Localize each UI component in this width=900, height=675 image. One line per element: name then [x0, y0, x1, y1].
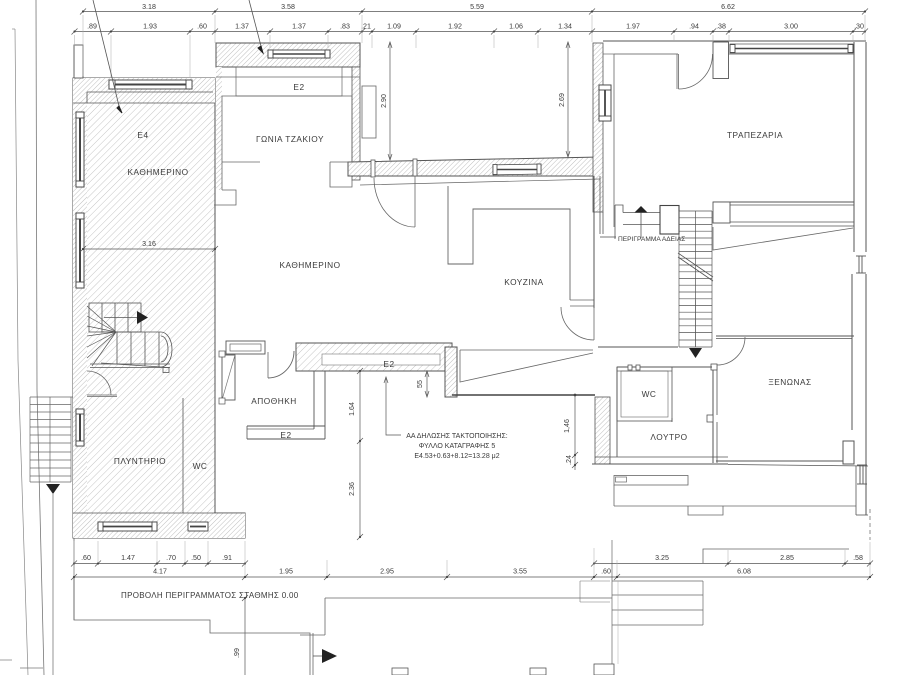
dining west inner line — [613, 54, 615, 227]
bathroom south wall — [595, 456, 728, 458]
door kitchen to hall — [561, 307, 594, 340]
door living south (slant band) — [371, 159, 417, 227]
svg-text:ΚΑΘΗΜΕΡΙΝΟ: ΚΑΘΗΜΕΡΙΝΟ — [279, 260, 340, 270]
note tactopoiisis — [406, 433, 508, 460]
door storeroom arc niche — [268, 351, 294, 378]
left site boundary lines — [15, 29, 28, 675]
extension lines bottom dims — [74, 541, 870, 664]
window E4 north wall — [109, 80, 192, 89]
xenonas east wall — [851, 274, 853, 430]
kitchen east wall — [593, 176, 595, 308]
bottom projected outline middle — [325, 597, 612, 599]
svg-text:ΑΑ ΔΗΛΩΣΗΣ ΤΑΚΤΟΠΟΙΗΣΗΣ:: ΑΑ ΔΗΛΩΣΗΣ ΤΑΚΤΟΠΟΙΗΣΗΣ: — [406, 433, 508, 440]
svg-text:1.64: 1.64 — [348, 402, 356, 416]
wall fireplace room interior — [222, 96, 352, 190]
svg-text:ΦΥΛΛΟ ΚΑΤΑΓΡΑΦΗΣ 5: ΦΥΛΛΟ ΚΑΤΑΓΡΑΦΗΣ 5 — [419, 443, 496, 450]
window E4 west wall middle — [76, 213, 84, 288]
stairs outdoor bottom right — [612, 540, 703, 675]
window dining north long — [730, 44, 853, 53]
svg-text:.89: .89 — [87, 23, 97, 31]
window E4 west wall upper — [76, 112, 84, 187]
svg-text:55: 55 — [416, 380, 424, 388]
window E4 west wall lower — [76, 409, 84, 446]
svg-text:.91: .91 — [222, 554, 232, 562]
wall stub right of living opening — [330, 162, 352, 187]
wall slant band inner line — [360, 179, 600, 185]
svg-text:E2: E2 — [383, 359, 394, 369]
I-column lower right — [857, 465, 867, 484]
svg-text:ΓΩΝΙΑ ΤΖΑΚΙΟΥ: ΓΩΝΙΑ ΤΖΑΚΙΟΥ — [256, 134, 324, 144]
door hall to xenonas — [717, 337, 745, 365]
xenonas SE corner wall — [843, 441, 854, 464]
window dining west wall — [599, 85, 611, 121]
svg-text:3.25: 3.25 — [655, 554, 669, 562]
svg-text:WC: WC — [193, 461, 208, 471]
window storeroom north — [226, 341, 265, 354]
svg-text:3.55: 3.55 — [513, 568, 527, 576]
corridor floor line — [452, 394, 595, 396]
WC room walls — [617, 367, 672, 421]
stairs main treads — [679, 211, 712, 347]
black arrow bottom middle — [322, 649, 337, 663]
svg-text:.60: .60 — [81, 554, 91, 562]
svg-text:.50: .50 — [191, 554, 201, 562]
svg-text:2.69: 2.69 — [558, 93, 566, 107]
svg-text:3.58: 3.58 — [281, 3, 295, 11]
svg-text:3.00: 3.00 — [784, 23, 798, 31]
leader arrow to fireplace window — [249, 0, 261, 46]
svg-text:.60: .60 — [601, 568, 611, 576]
door E4 west wall — [87, 371, 117, 397]
window bottom band wc — [188, 522, 208, 531]
svg-text:ΚΟΥΖΙΝΑ: ΚΟΥΖΙΝΑ — [504, 277, 543, 287]
svg-text:ΠΕΡΙΓΡΑΜΜΑ ΑΔΕΙΑΣ: ΠΕΡΙΓΡΑΜΜΑ ΑΔΕΙΑΣ — [618, 236, 685, 243]
svg-text:Ε4.53+0.63+8.12=13.28 μ2: Ε4.53+0.63+8.12=13.28 μ2 — [414, 453, 499, 460]
dining north wall — [603, 40, 866, 42]
svg-text:.94: .94 — [689, 23, 699, 31]
wall E4 inner top line — [73, 102, 215, 104]
svg-text:1.97: 1.97 — [626, 23, 640, 31]
svg-text:1.47: 1.47 — [121, 554, 135, 562]
svg-text:ΚΑΘΗΜΕΡΙΝΟ: ΚΑΘΗΜΕΡΙΝΟ — [127, 167, 188, 177]
svg-text:.83: .83 — [340, 23, 350, 31]
vertical dimension .99 — [244, 598, 246, 675]
svg-text:1.95: 1.95 — [279, 568, 293, 576]
stairs winder fan — [87, 306, 116, 366]
bottom left small lines — [20, 667, 43, 669]
svg-text:3.16: 3.16 — [142, 240, 156, 248]
svg-text:E2: E2 — [280, 430, 291, 440]
taper ramp right — [713, 227, 853, 250]
wall shaft right of fireplace room — [362, 86, 376, 138]
bottom columns — [392, 668, 408, 675]
vertical dimension 2.90 — [388, 42, 392, 160]
leader arrow to E4 — [93, 0, 119, 106]
stairs main: upper landing — [600, 205, 679, 239]
svg-text:ΞΕΝΩΝΑΣ: ΞΕΝΩΝΑΣ — [768, 377, 811, 387]
window fireplace room north — [268, 50, 330, 58]
veranda step outline right — [703, 549, 849, 563]
window slant band (kitchen) — [493, 164, 541, 175]
hatched slanted south wall band — [348, 157, 600, 176]
xenonas west wall — [712, 364, 714, 463]
svg-text:1,46: 1,46 — [563, 419, 571, 433]
svg-text:1.92: 1.92 — [448, 23, 462, 31]
storeroom walls — [247, 425, 325, 427]
svg-text:WC: WC — [642, 389, 657, 399]
svg-text:6.08: 6.08 — [737, 568, 751, 576]
stairs main down arrow — [695, 300, 697, 347]
dimension bottom row A left — [71, 561, 248, 567]
svg-text:1.37: 1.37 — [292, 23, 306, 31]
svg-text:6.62: 6.62 — [721, 3, 735, 11]
svg-text:.70: .70 — [166, 554, 176, 562]
hatched area E4 block — [73, 78, 245, 538]
wall laundry/wc divider — [182, 398, 184, 513]
hatched area fireplace-corner left sliver — [216, 67, 222, 190]
dimension row 2 top — [75, 31, 866, 33]
column pier below dining north wall — [713, 42, 729, 79]
dimension row 1 top — [80, 9, 868, 15]
svg-text:.21: .21 — [361, 23, 371, 31]
svg-text:E2: E2 — [293, 82, 304, 92]
svg-text:2.36: 2.36 — [348, 482, 356, 496]
dining east wall — [853, 42, 855, 252]
svg-text:E4: E4 — [137, 130, 148, 140]
svg-text:2.85: 2.85 — [780, 554, 794, 562]
hatched area fireplace-corner top band — [216, 43, 360, 67]
dining south wall — [713, 201, 854, 203]
svg-text:ΑΠΟΘΗΚΗ: ΑΠΟΘΗΚΗ — [251, 396, 296, 406]
extension lines from top dims — [75, 15, 866, 78]
corridor line left of E2 band — [296, 342, 300, 344]
svg-text:5.59: 5.59 — [470, 3, 484, 11]
hatched area fireplace-corner right band — [352, 67, 360, 180]
svg-text:4.17: 4.17 — [153, 568, 167, 576]
svg-text:ΠΡΟΒΟΛΗ ΠΕΡΙΓΡΑΜΜΑΤΟΣ ΣΤΑΘΜΗΣ: ΠΡΟΒΟΛΗ ΠΕΡΙΓΡΑΜΜΑΤΟΣ ΣΤΑΘΜΗΣ 0.00 — [121, 591, 299, 600]
door jamb wc — [628, 365, 640, 370]
column pier at dining south — [713, 202, 730, 223]
svg-text:.99: .99 — [233, 648, 241, 658]
vertical dimension 55 — [425, 371, 429, 397]
wall stub left of living opening — [214, 190, 236, 205]
svg-text:.60: .60 — [197, 23, 207, 31]
svg-text:1.06: 1.06 — [509, 23, 523, 31]
svg-text:1.93: 1.93 — [143, 23, 157, 31]
wall fireplace room E2 strip — [236, 67, 342, 96]
svg-text:.58: .58 — [853, 554, 863, 562]
bottom projected outline left — [74, 578, 310, 675]
stairs outdoor left — [30, 397, 73, 482]
svg-text:1.09: 1.09 — [387, 23, 401, 31]
window storeroom west with diagonal — [219, 351, 235, 404]
dimension bottom row A right — [591, 561, 873, 567]
kitchen counter — [448, 186, 570, 300]
veranda below bathroom — [614, 476, 688, 486]
hatched bathroom west wall — [595, 397, 610, 464]
corridor ramp — [460, 350, 593, 382]
svg-text:3.18: 3.18 — [142, 3, 156, 11]
svg-text:2.95: 2.95 — [380, 568, 394, 576]
wall chimney stub top-left — [74, 45, 83, 78]
dimension bottom row B — [71, 574, 873, 580]
svg-text:.30: .30 — [854, 23, 864, 31]
svg-text:1.37: 1.37 — [235, 23, 249, 31]
west outer wall line below block — [73, 538, 75, 620]
leader note tactopoiisis — [384, 377, 401, 435]
dashed boundary right — [869, 509, 871, 540]
xenonas south wall — [716, 460, 843, 462]
stairs winder in laundry: upper flight — [89, 303, 141, 332]
door dining north — [677, 54, 713, 89]
xenonas north wall — [716, 335, 854, 337]
stairs winder direction arrow — [137, 311, 148, 324]
hatched area E2 porch band — [296, 343, 452, 371]
dimension 3.16 inside E4 — [83, 248, 215, 250]
stairs main up arrow — [635, 206, 648, 213]
svg-text:1.34: 1.34 — [558, 23, 572, 31]
svg-text:ΛΟΥΤΡΟ: ΛΟΥΤΡΟ — [650, 432, 687, 442]
beam below dining south wall — [730, 221, 854, 223]
svg-text:ΠΛΥΝΤΗΡΙΟ: ΠΛΥΝΤΗΡΙΟ — [114, 456, 166, 466]
stairs main break line — [678, 253, 713, 281]
hatched dining west wall — [593, 43, 603, 212]
svg-text:2.90: 2.90 — [380, 94, 388, 108]
svg-text:.24: .24 — [565, 455, 573, 465]
vertical dimension 1.64 / 2.36 — [357, 368, 363, 540]
bottom outline right step — [580, 581, 610, 602]
stairs winder lower flight — [90, 332, 172, 373]
svg-text:.38: .38 — [716, 23, 726, 31]
svg-text:ΤΡΑΠΕΖΑΡΙΑ: ΤΡΑΠΕΖΑΡΙΑ — [727, 130, 783, 140]
vertical dimension 2.69 — [566, 42, 570, 157]
window bottom band laundry — [98, 522, 157, 531]
stairs outdoor left down arrow — [46, 484, 60, 494]
hall floor line above WC — [598, 346, 678, 348]
vertical dimension 1.46 / .24 — [572, 395, 578, 470]
I-column upper right — [856, 256, 866, 273]
hatched wall right of E2 band — [445, 347, 457, 397]
